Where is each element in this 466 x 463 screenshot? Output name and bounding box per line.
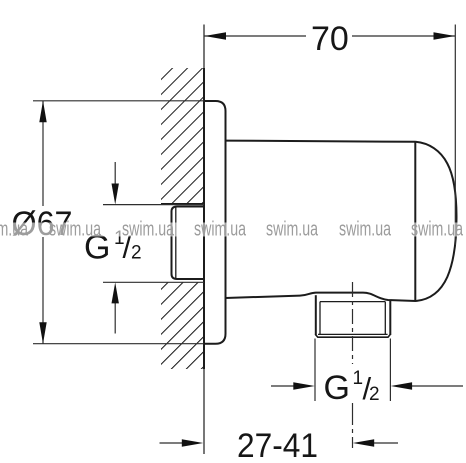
inlet thread upper arrowhead <box>112 184 119 205</box>
outlet stub thread relief left <box>319 302 321 335</box>
dim 27-41 right arrow tail <box>373 442 398 444</box>
dim 70 line right segment <box>352 35 455 37</box>
inlet stub in wall <box>172 207 205 280</box>
inlet thread lower arrow tail <box>114 301 116 334</box>
wall opening boundary above inlet stub <box>161 203 204 205</box>
dim 27-41 left arrow tail <box>160 442 184 444</box>
svg-text:swim.ua: swim.ua <box>194 219 247 241</box>
dim O67 text background <box>9 206 71 237</box>
wall hatching lower <box>161 283 204 370</box>
centerline of outlet <box>352 282 354 364</box>
svg-text:swim.ua: swim.ua <box>411 219 464 241</box>
wall face object line <box>203 68 205 369</box>
svg-text:swim.ua: swim.ua <box>122 219 175 241</box>
svg-text:swim.ua: swim.ua <box>339 219 392 241</box>
dim 70 arrowhead right <box>434 32 456 39</box>
svg-text:swim.ua: swim.ua <box>0 219 29 241</box>
wall hatching upper <box>161 68 204 205</box>
body end cap <box>416 142 457 301</box>
svg-text:1: 1 <box>353 368 364 389</box>
dim 70 arrowhead left <box>205 32 227 39</box>
outlet stub bottom inner line <box>318 333 388 335</box>
body seam line <box>414 142 416 301</box>
outlet thread right extension line <box>389 339 391 402</box>
outlet thread left arrow tail <box>271 385 295 387</box>
inlet thread upper arrow tail <box>114 162 116 186</box>
svg-text:G: G <box>324 369 350 407</box>
svg-text:2: 2 <box>369 384 380 405</box>
dim O67 top extension line <box>33 100 204 102</box>
dim O67 line <box>42 101 44 344</box>
svg-text:27-41: 27-41 <box>237 427 318 463</box>
centerline lower segment <box>352 403 354 448</box>
svg-text:swim.ua: swim.ua <box>49 219 102 241</box>
dim 27-41 right arrowhead <box>353 439 375 446</box>
watermark strip <box>0 223 466 237</box>
outlet stub thread relief right <box>384 302 386 335</box>
body bottom edge <box>226 293 417 301</box>
outlet stub bottom chamfered edge <box>315 334 390 337</box>
wall face line <box>203 25 205 455</box>
dim O67 arrowhead bottom <box>39 322 46 344</box>
outlet thread right arrowhead <box>391 382 413 389</box>
outlet stub right edge <box>389 300 391 335</box>
inlet thread top extension line <box>103 204 204 206</box>
outlet thread right arrow tail <box>412 385 463 387</box>
flange escutcheon <box>204 101 226 344</box>
outlet thread left extension line <box>314 339 316 402</box>
svg-text:2: 2 <box>131 243 142 264</box>
inlet thread bottom extension line <box>103 281 204 283</box>
outlet thread left arrowhead <box>293 382 315 389</box>
svg-text:swim.ua: swim.ua <box>266 219 319 241</box>
body top edge <box>226 141 416 142</box>
outlet stub left edge <box>315 295 317 335</box>
inlet thread lower arrowhead <box>112 282 119 303</box>
outlet stub thread shoulder line <box>320 301 385 303</box>
watermark texts <box>0 219 464 241</box>
dim O67 bottom extension line <box>33 343 204 345</box>
svg-text:70: 70 <box>311 20 349 58</box>
dim O67 arrowhead top <box>39 101 46 123</box>
dim 70 line left segment <box>205 35 307 37</box>
dim 27-41 left arrowhead <box>182 439 204 446</box>
inlet stub thread relief line <box>175 207 177 280</box>
dim 70 extension line right <box>454 25 456 246</box>
